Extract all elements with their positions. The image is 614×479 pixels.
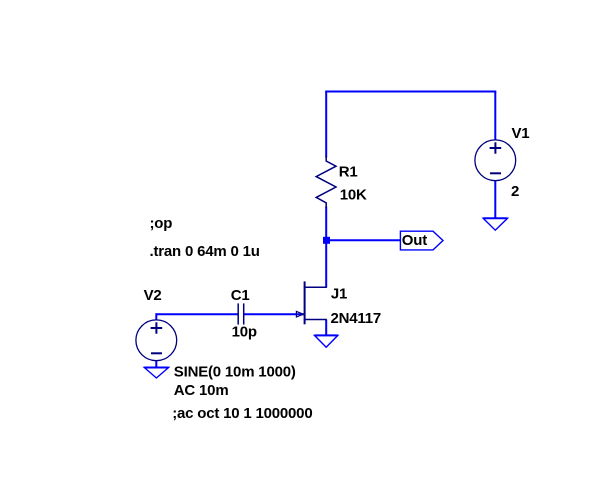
- wire V2 to C1: [156, 313, 238, 315]
- svg-text:AC 10m: AC 10m: [174, 382, 229, 399]
- svg-text:J1: J1: [331, 285, 347, 302]
- ground below V1: [483, 218, 507, 230]
- svg-text:V2: V2: [144, 287, 162, 304]
- svg-text:Out: Out: [402, 232, 427, 249]
- svg-text:.tran 0 64m 0 1u: .tran 0 64m 0 1u: [150, 243, 260, 260]
- voltage source V2: [136, 320, 177, 361]
- wire V2 top stub: [155, 313, 157, 320]
- voltage source V1: [475, 140, 516, 181]
- svg-text:10K: 10K: [340, 187, 367, 204]
- wire top horizontal: [325, 91, 496, 93]
- JFET J1: [296, 281, 326, 324]
- wire junction to Out flag: [330, 239, 401, 241]
- svg-text:SINE(0 10m 1000): SINE(0 10m 1000): [174, 363, 296, 380]
- wire V1 upper vertical: [494, 92, 496, 141]
- svg-text:;op: ;op: [150, 215, 173, 232]
- svg-text:V1: V1: [512, 125, 530, 142]
- svg-text:C1: C1: [231, 287, 250, 304]
- capacitor C1: [238, 303, 244, 324]
- wire V2 bottom stub: [155, 361, 157, 369]
- wire R1 bottom to junction to J1 drain: [325, 207, 327, 288]
- ground below J1 source: [315, 335, 338, 347]
- wire C1 to J1 gate: [244, 313, 304, 315]
- ground below V2: [144, 368, 168, 379]
- wire left vertical to R1 top: [325, 92, 327, 158]
- resistor R1: [316, 156, 336, 209]
- svg-text:10p: 10p: [232, 324, 257, 341]
- wire J1 source to ground: [325, 320, 327, 337]
- svg-text:2: 2: [511, 183, 519, 200]
- output port flag Out: [400, 231, 443, 250]
- svg-text:2N4117: 2N4117: [331, 310, 382, 327]
- svg-text:R1: R1: [339, 164, 358, 181]
- junction node: [323, 237, 330, 244]
- svg-text:;ac oct 10 1 1000000: ;ac oct 10 1 1000000: [172, 405, 312, 422]
- wire V1 lower vertical: [494, 181, 496, 219]
